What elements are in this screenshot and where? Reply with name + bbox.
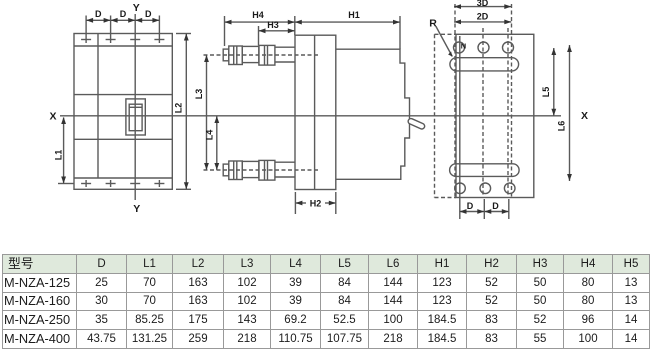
H2 dimension line	[295, 202, 306, 204]
D extension lines bottom	[483, 199, 485, 219]
arrowheads side view	[204, 20, 400, 206]
svg-text:X: X	[581, 110, 588, 122]
right hole column dashed centerline	[507, 28, 509, 198]
Y centerline	[134, 14, 136, 200]
svg-text:L5: L5	[541, 87, 551, 98]
dimension L1 line	[63, 118, 65, 184]
top stud nut 2	[259, 45, 275, 65]
top stud bolt end	[223, 49, 229, 61]
hole column centerline left	[454, 4, 456, 198]
svg-text:D: D	[492, 201, 499, 211]
3D dimension line	[454, 6, 511, 8]
bottom stud nut 2	[259, 160, 275, 180]
dimension table	[2, 254, 650, 349]
front view outline	[74, 34, 172, 190]
front view mid band upper line	[74, 94, 172, 96]
side view plate joint line	[314, 35, 316, 189]
terminal cross marks bottom row	[81, 180, 164, 187]
X axis line	[60, 115, 561, 117]
L5 dimension line	[553, 48, 555, 116]
side view body profile	[336, 49, 410, 179]
H4 dimension line	[225, 21, 295, 23]
svg-text:Y: Y	[133, 2, 140, 14]
dimension D extension lines	[86, 16, 159, 44]
drilling plan dashed left extension	[434, 34, 436, 197]
front view bottom band line	[74, 177, 172, 179]
top stud bar	[242, 46, 259, 62]
svg-text:Y: Y	[133, 203, 140, 215]
bottom stud bolt end	[223, 164, 229, 176]
L6 dimension line	[569, 45, 571, 181]
toggle handle bar	[129, 106, 142, 108]
front view pole divider	[97, 34, 99, 179]
top stud boss	[275, 46, 295, 48]
H2 extension lines	[294, 192, 296, 214]
svg-text:H1: H1	[348, 10, 360, 20]
top stud centerline	[204, 54, 321, 56]
left hole column solid centerline	[459, 36, 461, 219]
svg-text:L4: L4	[205, 130, 215, 141]
bottom slot	[450, 164, 519, 177]
L4 dimension line	[216, 116, 218, 170]
svg-text:L6: L6	[557, 121, 567, 132]
side view labels	[194, 10, 360, 209]
arrowheads front view	[61, 18, 189, 189]
drilling plan solid outline	[456, 34, 534, 197]
svg-text:X: X	[49, 111, 56, 123]
dimension L1 tick	[58, 183, 74, 185]
H1 extension line	[399, 16, 401, 49]
R leader line	[436, 27, 452, 57]
svg-text:N: N	[461, 42, 466, 51]
dimension L2 line	[185, 34, 187, 190]
hole column centerline right	[511, 4, 513, 198]
H4 extension lines	[224, 16, 226, 46]
top hole row	[454, 42, 465, 53]
svg-text:H2: H2	[310, 199, 322, 209]
toggle outer rect	[126, 99, 145, 135]
drilling plan labels	[429, 0, 588, 211]
bottom stud nut 1	[229, 161, 243, 180]
svg-text:D: D	[467, 201, 474, 211]
svg-text:H4: H4	[252, 10, 264, 20]
svg-text:H3: H3	[267, 20, 279, 30]
toggle inner rect	[129, 104, 142, 131]
svg-text:L2: L2	[174, 103, 184, 114]
terminal cross marks top row	[81, 39, 164, 41]
svg-text:3D: 3D	[477, 0, 489, 8]
top stud nut 1	[229, 46, 243, 65]
side view mounting plate	[295, 35, 336, 189]
bottom hole row	[455, 183, 466, 194]
bottom stud centerline	[204, 169, 321, 171]
front view labels	[49, 2, 183, 215]
hole column centerline middle	[482, 28, 484, 198]
dimension D line	[86, 19, 159, 21]
svg-text:2D: 2D	[477, 12, 489, 22]
dimension L2 ticks	[176, 33, 191, 35]
arrowheads drilling plan	[448, 4, 572, 214]
H3 extension line	[258, 26, 260, 45]
D dimension line bottom	[460, 211, 509, 213]
H3 dimension line	[259, 30, 295, 32]
side view toggle handle	[407, 118, 425, 130]
top slot	[450, 58, 519, 71]
svg-text:R: R	[429, 18, 437, 30]
bottom stud boss	[275, 161, 295, 163]
front view mid band lower line	[74, 138, 172, 140]
front view top band line	[74, 45, 172, 47]
H1 dimension line	[295, 21, 400, 23]
bottom stud bar	[242, 161, 259, 177]
svg-text:D: D	[95, 9, 102, 19]
svg-text:D: D	[120, 9, 127, 19]
svg-text:D: D	[145, 9, 152, 19]
svg-text:L3: L3	[194, 89, 204, 100]
2D dimension line	[454, 21, 511, 23]
svg-text:L1: L1	[54, 150, 64, 161]
L3 dimension line	[206, 55, 208, 170]
